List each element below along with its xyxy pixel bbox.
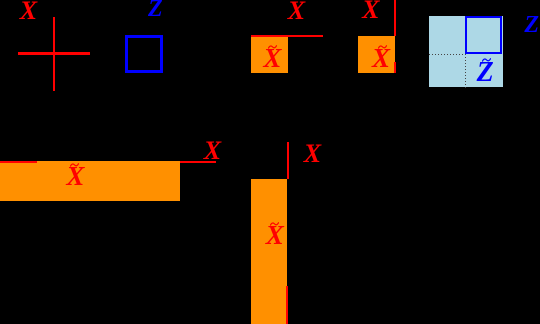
wire dotted vertical divider — [465, 54, 466, 87]
wire red string segment beyond right end of bar — [180, 161, 217, 163]
wire red horizontal string — [251, 35, 323, 37]
label X (on string) — [304, 141, 321, 167]
label X (star operator) — [20, 0, 37, 24]
Z plaquette operator (blue square) — [125, 35, 163, 73]
label Xtilde (in orange bar) — [66, 163, 84, 190]
label Z (right of region) — [524, 13, 539, 37]
wire red string visible over square right edge — [394, 62, 396, 73]
wire horizontal arm of cross — [18, 52, 91, 55]
label Ztilde (in light blue region) — [477, 59, 494, 87]
wire red vertical string — [394, 0, 396, 36]
Z plaquette cell outline (blue) — [465, 16, 502, 54]
wire red string visible over bar right edge at bottom — [286, 286, 288, 324]
logical Xtilde: long horizontal orange bar — [0, 161, 180, 201]
wire vertical arm of cross — [53, 17, 56, 91]
label Xtilde (in orange square) — [263, 45, 281, 72]
wire dotted horizontal divider — [429, 54, 466, 55]
orange square Xtilde region — [358, 36, 395, 73]
orange square Xtilde region — [251, 37, 288, 73]
label X (on string) — [204, 138, 221, 164]
deformed Z operator: light blue 2x2 region — [429, 16, 503, 87]
wire red string segment at left over bar top edge — [0, 161, 37, 163]
wire red vertical string above bar — [287, 142, 289, 180]
label Z (plaquette operator) — [148, 0, 163, 21]
label Xtilde (in orange square) — [372, 45, 390, 72]
label Xtilde (in orange bar) — [266, 222, 284, 249]
logical Xtilde: tall vertical orange bar — [251, 179, 287, 324]
label X (on string) — [362, 0, 379, 23]
label X (on string) — [288, 0, 305, 24]
